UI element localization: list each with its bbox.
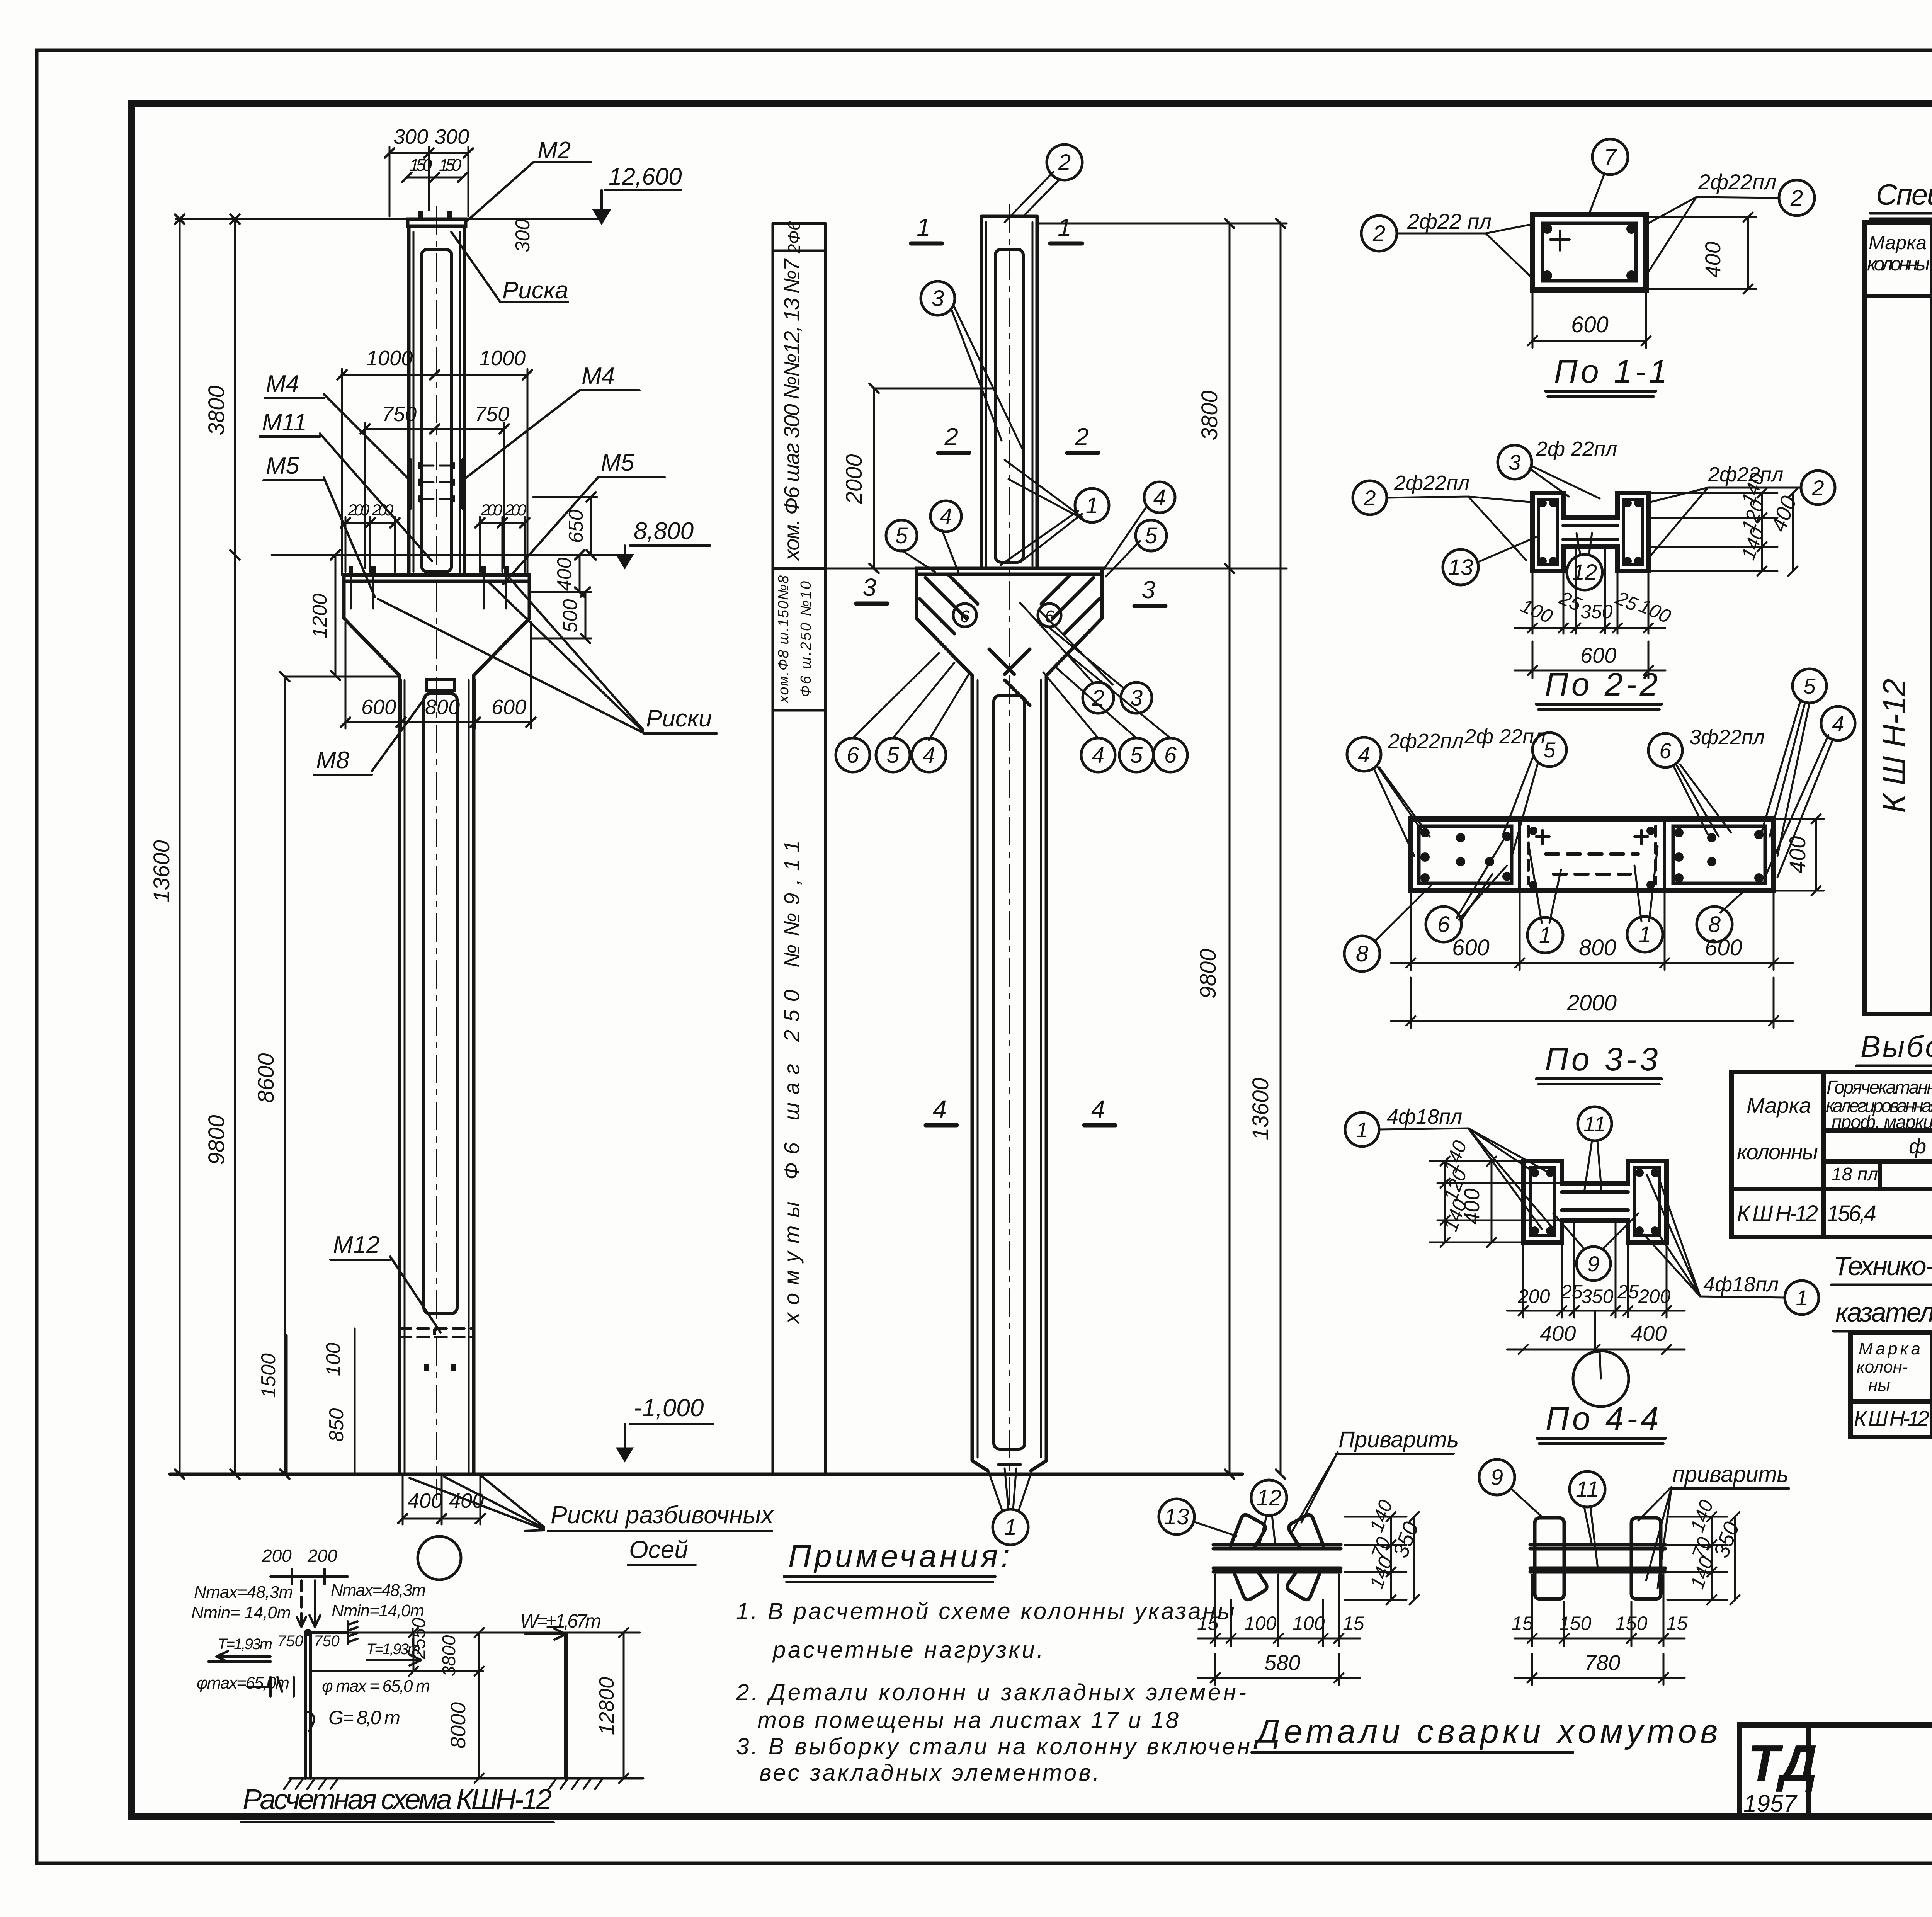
svg-text:350: 350: [1581, 1286, 1614, 1307]
svg-text:9800: 9800: [1196, 949, 1221, 998]
svg-text:350: 350: [1709, 1519, 1744, 1561]
svg-text:8000: 8000: [447, 1702, 470, 1749]
svg-text:780: 780: [1584, 1650, 1620, 1675]
svg-text:По 1-1: По 1-1: [1554, 353, 1670, 390]
svg-text:150: 150: [1559, 1613, 1592, 1634]
svg-text:Спецификация арматуры на о: Спецификация арматуры на одну колонну: [1876, 179, 1932, 211]
svg-text:4: 4: [1091, 1095, 1105, 1123]
svg-text:М2: М2: [537, 137, 571, 164]
svg-text:13600: 13600: [1248, 1078, 1273, 1140]
svg-text:вес закладных элементов.: вес закладных элементов.: [759, 1760, 1099, 1786]
svg-text:2: 2: [1075, 423, 1089, 451]
svg-text:φmax=65,0т: φmax=65,0т: [197, 1674, 289, 1692]
svg-text:1957: 1957: [1743, 1790, 1798, 1817]
svg-text:100: 100: [1244, 1613, 1277, 1634]
svg-text:2ф22пл: 2ф22пл: [1698, 170, 1777, 194]
svg-text:12: 12: [1257, 1485, 1282, 1510]
svg-text:1: 1: [1086, 493, 1098, 518]
svg-text:6: 6: [1164, 743, 1177, 768]
svg-text:25: 25: [1617, 1281, 1639, 1303]
svg-text:200: 200: [347, 501, 370, 519]
svg-text:6: 6: [960, 607, 970, 626]
svg-text:Риски: Риски: [646, 705, 712, 732]
svg-text:М5: М5: [601, 449, 634, 476]
svg-text:11: 11: [1583, 1112, 1606, 1136]
svg-text:1500: 1500: [257, 1353, 280, 1398]
svg-text:2ф 22пл: 2ф 22пл: [1464, 725, 1546, 748]
svg-text:12,600: 12,600: [609, 163, 682, 190]
svg-text:6: 6: [847, 743, 859, 768]
svg-text:ны: ны: [1868, 1376, 1890, 1395]
svg-text:200: 200: [1638, 1286, 1671, 1307]
svg-text:Марка: Марка: [1869, 232, 1927, 253]
svg-text:колонны: колонны: [1867, 253, 1930, 275]
svg-text:М11: М11: [262, 409, 307, 436]
svg-text:600: 600: [492, 696, 526, 719]
svg-text:650: 650: [565, 510, 587, 543]
svg-text:тов помещены на листах 17 и 18: тов помещены на листах 17 и 18: [757, 1707, 1179, 1733]
svg-text:3: 3: [932, 286, 944, 311]
svg-text:2ф22 пл: 2ф22 пл: [1407, 209, 1492, 233]
svg-text:колон-: колон-: [1857, 1357, 1908, 1376]
svg-text:6: 6: [1437, 912, 1450, 937]
svg-text:150: 150: [1615, 1613, 1648, 1634]
svg-text:Детали сварки хомутов: Детали сварки хомутов: [1253, 1713, 1721, 1750]
svg-text:300: 300: [434, 125, 469, 148]
svg-text:Выборка стали на одну кол: Выборка стали на одну колонну. (кг): [1861, 1029, 1932, 1063]
svg-text:8: 8: [1356, 941, 1368, 966]
svg-text:600: 600: [361, 696, 396, 719]
svg-text:Nmin=14,0т: Nmin=14,0т: [332, 1601, 424, 1620]
svg-text:Горячекатанная низ-: Горячекатанная низ-: [1827, 1077, 1932, 1098]
svg-text:1: 1: [1356, 1118, 1368, 1142]
svg-text:750: 750: [277, 1633, 303, 1650]
svg-text:2: 2: [1092, 685, 1104, 711]
svg-text:2Ф6: 2Ф6: [785, 221, 804, 254]
svg-text:W=±1,67т: W=±1,67т: [520, 1610, 601, 1632]
svg-text:300: 300: [512, 219, 534, 253]
svg-text:-1,000: -1,000: [634, 1394, 704, 1422]
svg-text:140: 140: [1366, 1554, 1397, 1592]
svg-text:приварить: приварить: [1672, 1462, 1789, 1487]
svg-text:4: 4: [1358, 742, 1370, 767]
svg-text:расчетные нагрузки.: расчетные нагрузки.: [772, 1637, 1043, 1663]
svg-text:200: 200: [1517, 1286, 1550, 1307]
svg-text:140: 140: [1366, 1497, 1397, 1535]
svg-text:2: 2: [1058, 150, 1071, 175]
svg-text:5: 5: [1803, 674, 1816, 698]
svg-text:4: 4: [933, 1095, 947, 1123]
svg-text:400: 400: [1785, 836, 1810, 874]
svg-text:1: 1: [1796, 1286, 1808, 1310]
svg-text:хом. Ф6 шаг 300 №№12, 13 №7: хом. Ф6 шаг 300 №№12, 13 №7: [779, 258, 804, 561]
svg-text:1000: 1000: [479, 347, 526, 370]
svg-text:8,800: 8,800: [634, 518, 694, 544]
svg-text:Технико-экономические по-: Технико-экономические по-: [1833, 1251, 1932, 1281]
svg-text:По 4-4: По 4-4: [1546, 1400, 1662, 1437]
svg-text:3800: 3800: [204, 385, 229, 435]
svg-text:1000: 1000: [366, 347, 413, 370]
svg-text:140: 140: [1686, 1554, 1718, 1592]
svg-text:1: 1: [1639, 922, 1651, 947]
svg-text:7: 7: [1604, 145, 1617, 170]
svg-text:200: 200: [262, 1546, 292, 1566]
svg-text:2ф22пл: 2ф22пл: [1394, 471, 1469, 495]
svg-text:2ф 22пл: 2ф 22пл: [1536, 437, 1617, 461]
svg-text:140: 140: [1737, 525, 1769, 563]
svg-text:3: 3: [862, 573, 876, 601]
svg-text:18 пл: 18 пл: [1832, 1164, 1878, 1185]
svg-text:100: 100: [322, 1343, 345, 1376]
svg-text:400: 400: [1631, 1321, 1667, 1345]
svg-text:3800: 3800: [439, 1635, 459, 1676]
svg-text:300: 300: [393, 125, 428, 148]
svg-text:200: 200: [504, 501, 527, 519]
svg-text:350: 350: [1388, 1519, 1423, 1561]
svg-text:4: 4: [940, 504, 952, 529]
svg-text:2000: 2000: [1566, 990, 1617, 1015]
svg-text:12800: 12800: [595, 1677, 618, 1735]
svg-text:К Ш Н-12: К Ш Н-12: [1877, 679, 1912, 813]
svg-text:4ф18пл: 4ф18пл: [1387, 1105, 1462, 1128]
svg-text:φ max = 65,0 т: φ max = 65,0 т: [322, 1677, 430, 1696]
svg-text:По 3-3: По 3-3: [1545, 1041, 1661, 1077]
svg-text:2: 2: [1811, 476, 1824, 500]
svg-text:350: 350: [1580, 601, 1613, 623]
svg-text:9: 9: [1491, 1465, 1503, 1490]
svg-text:400: 400: [1540, 1321, 1576, 1345]
svg-text:140: 140: [1686, 1497, 1718, 1535]
svg-text:ф мм: ф мм: [1909, 1135, 1932, 1158]
svg-text:3: 3: [1509, 450, 1520, 475]
svg-text:К Ш Н-12: К Ш Н-12: [1854, 1406, 1929, 1431]
svg-text:2000: 2000: [842, 454, 867, 504]
svg-text:25: 25: [1561, 1281, 1583, 1303]
svg-text:3ф22пл: 3ф22пл: [1689, 726, 1765, 749]
svg-text:800: 800: [425, 696, 460, 719]
svg-text:8: 8: [1708, 912, 1721, 937]
svg-text:Nmax=48,3т: Nmax=48,3т: [194, 1583, 293, 1602]
svg-text:хом.Ф8 ш.150№8: хом.Ф8 ш.150№8: [776, 575, 792, 704]
svg-text:100: 100: [1518, 595, 1556, 628]
svg-text:М5: М5: [266, 452, 299, 479]
svg-text:11: 11: [1576, 1477, 1599, 1502]
svg-text:3800: 3800: [1197, 390, 1222, 440]
svg-text:К Ш Н-12: К Ш Н-12: [1737, 1201, 1818, 1226]
svg-text:1: 1: [1004, 1515, 1017, 1540]
svg-text:Расчетная схема КШН-12: Расчетная схема КШН-12: [243, 1783, 552, 1815]
svg-text:9: 9: [1587, 1252, 1599, 1276]
svg-text:15: 15: [1343, 1613, 1364, 1634]
svg-text:200: 200: [307, 1546, 337, 1566]
svg-text:4: 4: [1092, 743, 1104, 768]
svg-text:750: 750: [474, 403, 509, 426]
svg-text:Nmax=48,3т: Nmax=48,3т: [331, 1581, 426, 1600]
svg-text:150: 150: [439, 156, 462, 175]
svg-text:казатели на одну колонну: казатели на одну колонну: [1835, 1297, 1932, 1327]
svg-text:Т=1,93т: Т=1,93т: [218, 1636, 272, 1653]
svg-text:2ф22пл: 2ф22пл: [1388, 730, 1463, 753]
svg-text:проф. марки 25ГС: проф. марки 25ГС: [1832, 1112, 1932, 1133]
svg-text:6: 6: [1659, 738, 1672, 763]
svg-text:Риска: Риска: [502, 277, 568, 304]
svg-text:4: 4: [1832, 711, 1844, 736]
svg-text:5: 5: [1145, 523, 1158, 548]
svg-text:М4: М4: [266, 371, 299, 397]
svg-text:Примечания:: Примечания:: [788, 1539, 1013, 1574]
svg-text:2550: 2550: [409, 1618, 429, 1659]
svg-text:2: 2: [1790, 185, 1803, 211]
svg-text:колонны: колонны: [1737, 1140, 1818, 1164]
svg-text:ТД: ТД: [1748, 1734, 1817, 1793]
svg-text:2: 2: [1363, 486, 1376, 510]
svg-text:100: 100: [1293, 1613, 1325, 1634]
svg-text:2. Детали колонн и закладных э: 2. Детали колонн и закладных элемен-: [736, 1679, 1246, 1705]
svg-text:4ф18пл: 4ф18пл: [1703, 1273, 1779, 1296]
svg-text:13600: 13600: [149, 840, 174, 902]
svg-text:1: 1: [1058, 213, 1071, 241]
svg-text:3. В выборку стали на колонну: 3. В выборку стали на колонну включен: [736, 1733, 1250, 1759]
svg-text:400: 400: [1766, 493, 1801, 535]
svg-text:Марка: Марка: [1747, 1093, 1811, 1118]
svg-text:600: 600: [1580, 643, 1616, 667]
svg-text:400: 400: [408, 1489, 442, 1512]
svg-text:750: 750: [382, 403, 417, 426]
svg-text:1200: 1200: [309, 594, 331, 638]
svg-text:1: 1: [1539, 923, 1551, 948]
svg-text:400: 400: [553, 558, 576, 591]
svg-text:5: 5: [887, 743, 900, 768]
svg-text:600: 600: [1571, 312, 1609, 337]
svg-text:4: 4: [923, 743, 935, 768]
svg-text:4: 4: [1153, 485, 1166, 510]
svg-text:Марка: Марка: [1859, 1339, 1920, 1358]
svg-text:800: 800: [1579, 935, 1616, 960]
svg-text:2: 2: [944, 423, 958, 451]
svg-text:13: 13: [1448, 555, 1473, 580]
svg-text:580: 580: [1264, 1650, 1300, 1675]
svg-text:500: 500: [559, 599, 582, 633]
svg-text:400: 400: [1701, 242, 1725, 277]
svg-text:850: 850: [325, 1408, 348, 1442]
svg-text:750: 750: [314, 1633, 340, 1650]
svg-text:1. В расчетной схеме колонны у: 1. В расчетной схеме колонны указаны: [736, 1598, 1235, 1624]
svg-text:5: 5: [1130, 743, 1143, 768]
svg-text:9800: 9800: [204, 1115, 229, 1165]
svg-text:5: 5: [895, 523, 908, 548]
svg-text:100: 100: [1636, 595, 1674, 628]
svg-text:Nmin= 14,0т: Nmin= 14,0т: [191, 1603, 291, 1622]
svg-text:М4: М4: [582, 363, 615, 390]
svg-text:Ф6 ш.250 №10: Ф6 ш.250 №10: [798, 581, 814, 697]
svg-text:G= 8,0 т: G= 8,0 т: [328, 1707, 400, 1728]
svg-text:1: 1: [917, 213, 930, 241]
svg-text:600: 600: [1452, 935, 1490, 960]
svg-text:По 2-2: По 2-2: [1545, 666, 1661, 703]
svg-text:Приварить: Приварить: [1338, 1427, 1459, 1452]
svg-text:200: 200: [480, 501, 503, 519]
svg-text:Осей: Осей: [629, 1536, 688, 1563]
svg-text:Риски разбивочных: Риски разбивочных: [551, 1501, 774, 1529]
svg-text:15: 15: [1512, 1613, 1533, 1634]
svg-text:хомуты Ф6 шаг 250 №№9,11: хомуты Ф6 шаг 250 №№9,11: [779, 840, 804, 1325]
svg-text:15: 15: [1666, 1613, 1688, 1634]
svg-text:156,4: 156,4: [1827, 1201, 1876, 1226]
svg-text:13: 13: [1164, 1504, 1189, 1529]
svg-text:8600: 8600: [253, 1053, 279, 1103]
svg-text:3: 3: [1141, 576, 1155, 604]
svg-text:2: 2: [1372, 221, 1385, 246]
svg-text:М12: М12: [333, 1232, 380, 1258]
svg-text:М8: М8: [316, 747, 350, 774]
svg-text:150: 150: [410, 156, 432, 175]
